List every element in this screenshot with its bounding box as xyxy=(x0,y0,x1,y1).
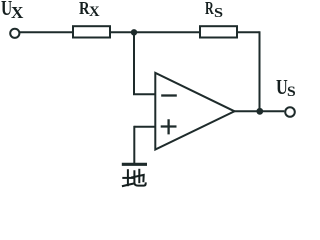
node A junction dot xyxy=(131,29,137,35)
node B junction dot xyxy=(256,108,263,115)
ground bar xyxy=(122,163,147,166)
wire non-inverting input left xyxy=(134,126,155,128)
minus sign inverting input xyxy=(161,94,177,96)
label Rs xyxy=(205,0,214,19)
ground label 地 (drawn glyph) xyxy=(123,170,146,186)
wire op-amp output xyxy=(235,110,285,112)
wire into inverting input xyxy=(133,93,155,95)
label Us xyxy=(276,75,288,100)
plus sign non-inverting input xyxy=(161,119,177,134)
label Rx xyxy=(79,0,90,19)
wire right vertical down to node B xyxy=(259,31,261,111)
resistor Rx xyxy=(73,26,110,37)
op-amp U1 xyxy=(155,73,234,150)
wire Rs to right corner xyxy=(237,31,260,33)
input terminal Ux xyxy=(10,29,19,38)
wire Ux terminal to Rx xyxy=(20,31,73,33)
label Ux xyxy=(1,0,12,21)
wire down to ground xyxy=(133,126,135,164)
wire feedback node A down xyxy=(133,32,135,94)
wire Rx to Rs xyxy=(110,31,200,33)
resistor Rs xyxy=(200,26,237,37)
output terminal Us xyxy=(285,107,295,117)
